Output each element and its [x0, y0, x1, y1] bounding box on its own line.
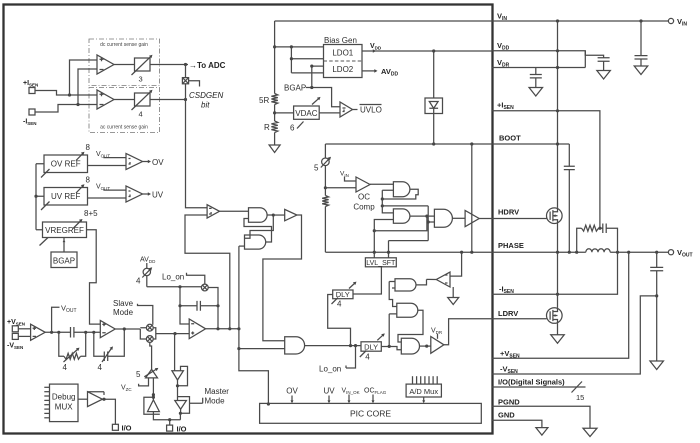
block DLY1: [333, 290, 353, 299]
ground GND: [536, 428, 548, 436]
wire ramp node vertical: [180, 287, 189, 324]
wire +VSEN pin: [492, 252, 629, 358]
wire nandC out: [416, 279, 427, 285]
wire sync down: [174, 334, 176, 371]
svg-text:PHASE: PHASE: [498, 241, 524, 250]
svg-text:UV REF: UV REF: [51, 192, 80, 201]
svg-text:Master: Master: [205, 387, 230, 396]
wire gain4 output: [150, 99, 186, 101]
wire trunk mid: [274, 105, 276, 122]
wire -ISEN to amps: [35, 105, 97, 113]
svg-text:Mode: Mode: [205, 397, 226, 406]
wire bias trunk: [274, 21, 276, 94]
ground PGND: [583, 428, 597, 436]
wire diff out: [45, 331, 70, 333]
wire ov stub: [291, 396, 293, 403]
node +ISEN bus: [556, 109, 559, 112]
ground Q2 source: [551, 335, 565, 344]
wire +ISEN to amps: [35, 91, 97, 96]
wire vsen-: [18, 335, 30, 337]
node sync tap: [173, 332, 176, 335]
wire rev buffer gnd: [452, 287, 454, 298]
svg-text:4: 4: [136, 277, 141, 286]
capacitor VDR bypass: [530, 75, 542, 78]
svg-text:Bias Gen: Bias Gen: [324, 36, 357, 45]
gate NAND B2: [393, 209, 410, 223]
wire VOUT tap: [52, 307, 60, 332]
capacitor VIN bypass: [640, 21, 642, 56]
wire sync bottom: [153, 413, 180, 425]
wire vinok stub: [348, 395, 350, 403]
wire ac amp to gain4: [114, 99, 135, 101]
wire dly1 in from and node: [328, 295, 351, 346]
node csdgen tap: [184, 63, 187, 66]
node PHASE bootcap: [568, 251, 571, 254]
feedback box B3: [144, 397, 160, 414]
svg-text:PIC CORE: PIC CORE: [350, 409, 391, 419]
wire latchB low to ANDmain: [239, 348, 285, 350]
svg-text:dc current sense gain: dc current sense gain: [100, 42, 148, 48]
wire -VSEN pin: [492, 296, 657, 374]
node output cap / -VSEN: [655, 294, 658, 297]
svg-text:R: R: [264, 123, 270, 132]
node vdac in: [273, 111, 276, 114]
gate AND hdrv: [434, 209, 452, 227]
wire b1 out: [177, 380, 179, 401]
node oc input: [324, 186, 327, 189]
node VDD bus: [556, 49, 559, 52]
wire h2 cross: [382, 205, 428, 207]
wire VIN rail: [275, 20, 669, 22]
terminal VOUT: [668, 250, 673, 255]
wire latch feed vertical: [238, 246, 240, 349]
op-amp dc sense: [97, 55, 114, 74]
wire vregref output to error amp: [87, 230, 101, 324]
wire v1 down: [382, 199, 393, 213]
wire PGND pin: [492, 406, 590, 428]
wire LDRV pin: [444, 319, 547, 345]
svg-text:LDO1: LDO1: [332, 49, 353, 58]
transistor Q1 high-side MOSFET: [547, 208, 563, 224]
wire boot driver rail: [471, 144, 473, 252]
gate NAND B1: [393, 182, 409, 197]
ground VDD cap: [597, 71, 611, 80]
wire to VDAC: [275, 112, 294, 114]
block VDAC: [294, 106, 320, 119]
node ldo wire2: [290, 45, 293, 48]
node -ISEN phase: [556, 293, 559, 296]
wire vout tick ov: [104, 156, 126, 159]
wire csdgen switch bottom: [185, 84, 187, 100]
switch slave top: [146, 324, 153, 331]
pin +ISEN input square: [29, 88, 35, 94]
svg-text:BGAP: BGAP: [53, 257, 75, 266]
wire R to ground: [274, 133, 276, 146]
ground VIN cap: [634, 66, 648, 75]
buffer debug: [88, 392, 103, 407]
wire vregref to bgap: [63, 238, 65, 253]
capacitor output: [656, 252, 658, 267]
block Debug MUX: [50, 384, 79, 422]
wire admux stub: [423, 397, 425, 402]
svg-text:4: 4: [63, 363, 68, 372]
wire ANDmain out: [305, 345, 361, 347]
node VDR bus: [556, 66, 559, 69]
svg-text:DLY: DLY: [364, 342, 378, 351]
wire lo_on tick: [187, 273, 205, 284]
node trunk LDO1: [273, 45, 276, 48]
wire vzc comp down: [152, 378, 154, 397]
wire VDD from LDO1: [362, 50, 492, 52]
node BOOT bus: [556, 142, 559, 145]
wire PHASE pin: [492, 251, 668, 253]
svg-text:BGAP: BGAP: [284, 84, 306, 93]
node isen+: [68, 93, 71, 96]
node VIN bus top: [556, 19, 559, 22]
wire csdgen down to comparator: [186, 100, 208, 208]
svg-text:LDO2: LDO2: [332, 65, 353, 74]
programmable attenuator 5: [322, 158, 330, 166]
switch ramp reset: [201, 284, 208, 291]
feedback var cap branch: [94, 332, 105, 356]
wire ldo1 second input: [291, 47, 323, 73]
switch CSDGEN: [182, 78, 188, 84]
svg-text:I/O: I/O: [122, 424, 132, 433]
wire master mode: [190, 398, 203, 403]
wire and to driver: [452, 217, 465, 219]
resistor 5R: [271, 94, 277, 105]
wire latchB out: [410, 215, 435, 217]
svg-text:6: 6: [290, 124, 295, 133]
comparator PWM: [189, 319, 205, 339]
ground bias: [269, 145, 280, 153]
svg-text:Lo_on: Lo_on: [162, 273, 184, 282]
wire -ISEN pin: [492, 252, 618, 294]
wire VDR pin: [492, 51, 585, 68]
comparator OV: [126, 154, 143, 170]
node isen-: [76, 103, 79, 106]
wire nandC in2 stub: [392, 287, 395, 289]
wire switch split: [140, 328, 146, 339]
wire UV out: [143, 193, 150, 195]
node VIN cap tap: [639, 19, 642, 22]
svg-text:Slave: Slave: [113, 299, 134, 308]
wire vdr tick: [437, 334, 439, 339]
wire +ISEN pin: [492, 111, 600, 228]
svg-text:4: 4: [337, 300, 342, 309]
gate NAND A1: [249, 208, 268, 223]
gate AND ldrv: [401, 338, 419, 354]
op-amp ac sense: [97, 90, 114, 109]
resistor oc divider: [322, 196, 328, 207]
transistor Q2 low-side MOSFET: [547, 308, 563, 324]
wire lvl riser 2: [389, 241, 429, 258]
wire ref rail: [36, 164, 44, 230]
parallel var resistor branch: [59, 332, 64, 356]
svg-text:ac current sense gain: ac current sense gain: [100, 125, 148, 131]
ground VDR cap: [529, 88, 543, 97]
capacitor ramp fb: [197, 301, 200, 311]
wire uvref to comp: [88, 197, 127, 199]
svg-text:OV: OV: [152, 158, 164, 167]
pin +VSEN input square: [12, 326, 18, 332]
wire latch B input: [239, 245, 245, 247]
block BGAP2: [51, 252, 77, 268]
gate NAND C: [395, 279, 416, 291]
svg-text:15: 15: [576, 393, 584, 402]
wire fb cap left: [180, 305, 197, 307]
buffer latchA out: [285, 209, 297, 220]
resistor Rsense: [582, 225, 599, 231]
bus 6 slash: [297, 122, 304, 129]
comparator UV: [126, 186, 143, 202]
node ramp left: [178, 285, 181, 288]
svg-text:3: 3: [139, 75, 143, 84]
wire oc out: [370, 183, 393, 185]
node BOOT driver rail: [470, 142, 473, 145]
wire compA out: [220, 210, 249, 212]
svg-text:8: 8: [86, 143, 91, 152]
wire csdgen bit tap: [189, 81, 200, 87]
node vout tap: [50, 331, 53, 334]
comparator UVLO: [340, 102, 353, 117]
wire c1 to node: [74, 331, 100, 333]
comparator OC: [356, 177, 370, 192]
wire mux to buffer: [78, 398, 88, 400]
current sense RC: left riser: [577, 228, 582, 252]
wire dly2 out: [381, 347, 401, 350]
svg-text:PGND: PGND: [498, 398, 520, 407]
capacitor VDD bypass: [598, 58, 610, 61]
wire nandD in2 from dly2: [389, 314, 397, 347]
wire vin tick: [345, 177, 357, 182]
buffer sync B3 up: [148, 400, 160, 412]
op-amp error amplifier: [100, 320, 115, 337]
svg-text:UV: UV: [323, 387, 335, 396]
wire buffer out c-path: [263, 215, 302, 341]
svg-text:VDAC: VDAC: [295, 109, 317, 118]
programmable gain block 3: [135, 58, 151, 71]
buffer sync B2: [175, 401, 187, 410]
wire diode to BOOT rail: [433, 114, 435, 145]
wire lvl riser 1: [374, 220, 393, 258]
wire ldo2 input: [312, 66, 324, 87]
block PIC CORE: [260, 403, 482, 423]
comparator VZC programmable: [146, 369, 158, 378]
wire dly1 out to lvl_sft: [353, 267, 381, 294]
wire csdgen switch top: [185, 65, 187, 78]
block VREGREF: [43, 222, 87, 238]
terminal VIN: [668, 18, 673, 23]
switch slave bottom: [146, 336, 153, 343]
wire Q1 source to PHASE: [557, 224, 559, 253]
svg-text:OV REF: OV REF: [51, 160, 81, 169]
wire OV out: [143, 161, 150, 163]
wire debug out: [102, 399, 115, 424]
wire resistor to phase rail: [324, 207, 326, 253]
svg-text:LVL_SFT: LVL_SFT: [366, 260, 396, 267]
svg-text:8: 8: [86, 176, 91, 185]
block LVL_SFT: [365, 258, 396, 267]
block A/D Mux: [406, 384, 441, 397]
a/d mux comb: [412, 376, 414, 384]
svg-text:LDRV: LDRV: [498, 309, 518, 318]
wire v428: [428, 206, 434, 241]
latch cross coupling: [245, 215, 274, 238]
wire bgap node: [306, 88, 340, 107]
pin -ISEN input square: [29, 109, 35, 115]
svg-text:Lo_on: Lo_on: [319, 365, 341, 374]
wire I/O bus: [492, 386, 586, 388]
capacitor Csense: [603, 223, 606, 233]
op-amp input diff: [31, 324, 46, 340]
wire avdd ramp line: [147, 286, 202, 288]
wire rev buffer out: [427, 278, 437, 280]
ground output cap: [650, 361, 664, 370]
svg-text:OC: OC: [358, 193, 370, 202]
pin I/O square debug: [112, 424, 118, 430]
svg-text:bit: bit: [201, 101, 210, 110]
buffer sync B1: [172, 371, 184, 380]
svg-text:→To ADC: →To ADC: [189, 61, 226, 70]
wire Q2 drain to PHASE: [557, 252, 559, 308]
wire ocflag stub: [372, 395, 374, 403]
node RC tap: [598, 227, 601, 230]
wire gain3 to ADC: [150, 64, 189, 66]
wire HDRV pin: [479, 218, 546, 220]
wire BOOT pin and internal rail: [325, 143, 569, 145]
wire vzc tick: [139, 378, 149, 386]
capacitor comp C1: [71, 327, 74, 338]
svg-text:4: 4: [365, 353, 370, 362]
wire -ISEN up to dc amp: [78, 69, 97, 105]
dashed box dc current sense gain: [89, 39, 160, 86]
driver HDRV: [465, 210, 479, 226]
wire phase to rev buffer: [450, 252, 462, 276]
programmable gain block 4: [135, 93, 151, 106]
diode bootstrap block: [433, 51, 435, 98]
wire switch right: [208, 288, 218, 329]
svg-text:MUX: MUX: [55, 403, 73, 412]
wire VDAC out: [319, 112, 340, 114]
svg-text:HDRV: HDRV: [498, 208, 519, 217]
debug mux input comb: [44, 386, 49, 388]
node PHASE rc-right: [616, 251, 619, 254]
wire trunk to LDO1: [275, 46, 324, 48]
wire dc amp to gain3: [114, 64, 135, 66]
bus slash 15: [572, 382, 583, 393]
svg-text:5: 5: [136, 370, 141, 379]
gate NAND A2: [245, 235, 266, 249]
svg-text:5: 5: [314, 164, 319, 173]
gate AND main: [285, 337, 305, 354]
feedback box B2: [178, 397, 190, 414]
wire RC right riser: [606, 228, 617, 252]
wire slave bottom switch down: [150, 342, 152, 369]
wire nandD out: [398, 310, 423, 342]
feedback box B1: [178, 366, 188, 385]
svg-text:4: 4: [139, 110, 143, 119]
dashed box ac current sense gain: [89, 88, 160, 133]
buffer reverse sense: [436, 272, 450, 287]
wire and to ldrv driver: [420, 345, 431, 347]
wire attenuator drop: [324, 144, 326, 196]
block DLY2: [361, 342, 381, 351]
node PHASE vsen: [627, 251, 630, 254]
node gain4/csdgen: [184, 98, 187, 101]
svg-text:I/O(Digital Signals): I/O(Digital Signals): [498, 378, 565, 387]
wire Q2 source to ground: [557, 323, 559, 335]
wire bootstrap cap branch: [568, 144, 570, 166]
svg-text:5R: 5R: [259, 96, 269, 105]
wire nandC/D input chain: [389, 282, 397, 307]
wire UVLO out: [353, 109, 358, 111]
wire switch join: [153, 328, 189, 339]
svg-text:OV: OV: [286, 387, 298, 396]
wire VDD pin: [492, 51, 604, 58]
wire PWM out to comparator A feedback: [185, 215, 230, 329]
block OV REF: [44, 155, 88, 173]
wire nandB1 in2: [382, 190, 393, 199]
programmable pot AVDD: [146, 263, 148, 287]
svg-text:4: 4: [98, 363, 103, 372]
wire RC tap to cap: [599, 227, 603, 229]
wire +ISEN up to dc amp: [70, 60, 98, 95]
wire nandB2 self loop: [374, 216, 427, 231]
svg-text:UV: UV: [152, 190, 164, 199]
wire vsen+: [18, 328, 30, 330]
resistor R: [271, 121, 277, 133]
node PHASE fet: [556, 251, 559, 254]
wire PWM out: [206, 328, 239, 330]
node BOOT diode: [432, 142, 435, 145]
wire slave mode: [138, 304, 153, 325]
wire VIN bus vertical: [557, 21, 559, 208]
wire VDR cap stub: [535, 68, 537, 75]
inductor L1: [586, 249, 610, 252]
wire AVDD from LDO2: [362, 70, 376, 72]
driver LDRV: [431, 337, 444, 354]
gate NAND D: [397, 303, 418, 317]
wire oc comp input: [325, 187, 356, 189]
svg-text:Mode: Mode: [113, 308, 134, 317]
svg-text:CSDGEN: CSDGEN: [189, 91, 223, 100]
svg-text:UVLO: UVLO: [360, 106, 382, 115]
capacitor bootstrap: [564, 166, 575, 169]
wire EA out: [115, 328, 140, 330]
node PHASE outcap: [655, 251, 658, 254]
svg-text:A/D Mux: A/D Mux: [409, 387, 438, 396]
wire latch vertical to PIC: [239, 349, 269, 404]
comparator csdgen-compare: [207, 205, 219, 218]
svg-text:VREGREF: VREGREF: [45, 226, 84, 235]
svg-text:BOOT: BOOT: [499, 134, 521, 143]
wire vout tick uv: [104, 188, 126, 191]
node comp in left: [57, 331, 60, 334]
wire uv stub: [328, 396, 330, 403]
wire fb cap right: [200, 305, 218, 307]
wire GND pin: [492, 420, 542, 427]
pin I/O square sync: [167, 425, 173, 431]
svg-text:Debug: Debug: [52, 393, 76, 402]
wire PHASE internal rail: [325, 251, 492, 253]
IC boundary box: [4, 5, 493, 434]
wire ovref to comp: [88, 165, 127, 167]
pin -VSEN input square: [12, 333, 18, 339]
ground rev buffer: [448, 298, 459, 305]
svg-text:GND: GND: [498, 411, 515, 420]
svg-text:8+5: 8+5: [84, 209, 98, 218]
